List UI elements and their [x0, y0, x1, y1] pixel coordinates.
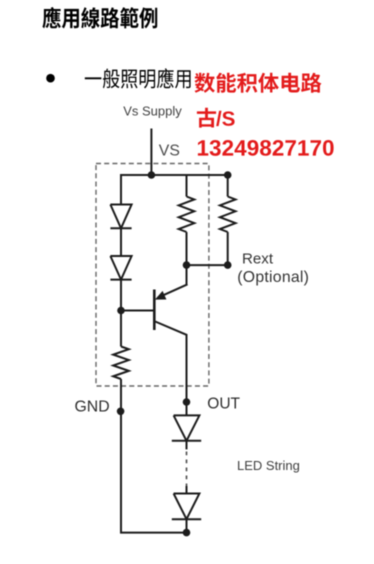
- svg-text:OUT: OUT: [207, 396, 240, 413]
- svg-text:Rext: Rext: [242, 250, 274, 267]
- svg-text:GND: GND: [75, 398, 110, 415]
- svg-text:Vs Supply: Vs Supply: [123, 104, 182, 119]
- svg-text:LED String: LED String: [237, 458, 300, 473]
- svg-text:(Optional): (Optional): [237, 269, 309, 286]
- svg-text:VS: VS: [159, 142, 180, 159]
